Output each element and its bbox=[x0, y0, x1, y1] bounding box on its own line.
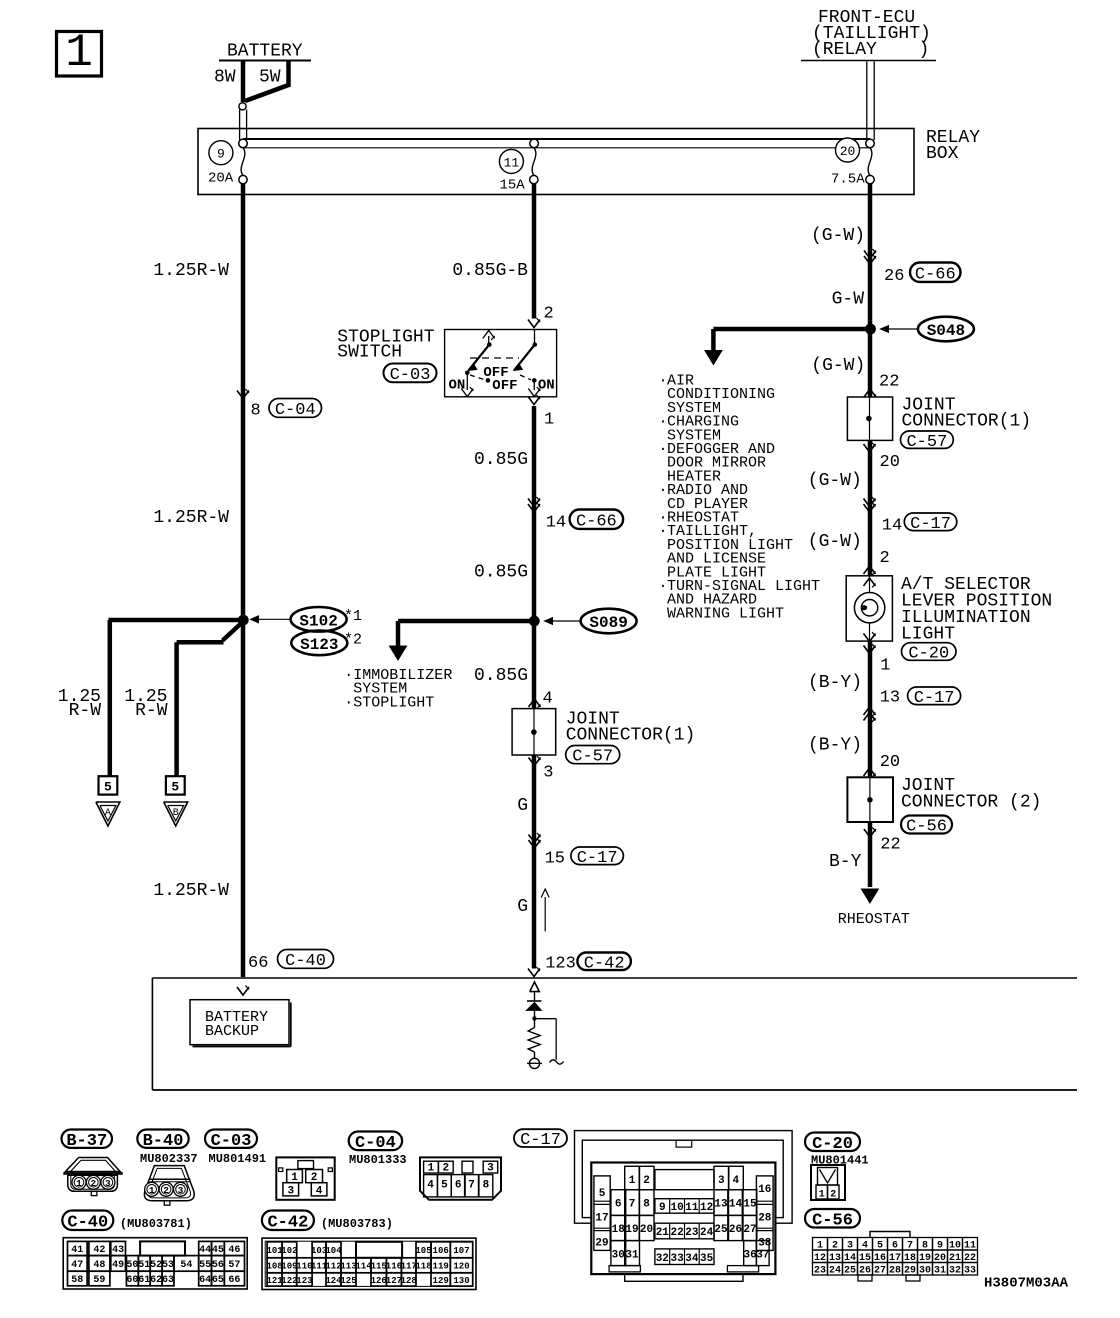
svg-text:118: 118 bbox=[415, 1262, 431, 1272]
svg-text:116: 116 bbox=[386, 1262, 402, 1272]
svg-text:13: 13 bbox=[880, 689, 900, 708]
svg-text:C-42: C-42 bbox=[584, 954, 625, 973]
svg-text:C-04: C-04 bbox=[275, 401, 316, 420]
svg-text:33: 33 bbox=[670, 1253, 684, 1265]
svg-text:108: 108 bbox=[266, 1262, 282, 1272]
svg-text:60: 60 bbox=[126, 1275, 138, 1286]
svg-text:17: 17 bbox=[595, 1213, 608, 1225]
svg-text:C-20: C-20 bbox=[908, 645, 949, 664]
svg-text:3: 3 bbox=[487, 1163, 494, 1175]
svg-text:7: 7 bbox=[629, 1199, 636, 1211]
svg-text:15: 15 bbox=[743, 1199, 757, 1211]
svg-text:5W: 5W bbox=[259, 68, 281, 88]
svg-text:MU801491: MU801491 bbox=[209, 1152, 267, 1166]
svg-text:*1: *1 bbox=[344, 608, 362, 625]
svg-text:127: 127 bbox=[386, 1276, 402, 1286]
svg-text:C-66: C-66 bbox=[915, 265, 956, 284]
svg-text:8: 8 bbox=[251, 402, 261, 421]
svg-text:24: 24 bbox=[829, 1265, 841, 1276]
svg-text:14: 14 bbox=[729, 1199, 743, 1211]
svg-text:1: 1 bbox=[76, 1178, 82, 1189]
svg-text:2: 2 bbox=[830, 1190, 836, 1201]
svg-text:129: 129 bbox=[433, 1276, 449, 1286]
svg-text:6: 6 bbox=[615, 1199, 622, 1211]
svg-text:C-40: C-40 bbox=[67, 1213, 108, 1232]
svg-text:119: 119 bbox=[433, 1262, 449, 1272]
svg-text:C-20: C-20 bbox=[812, 1135, 853, 1154]
svg-text:2: 2 bbox=[163, 1185, 169, 1196]
svg-text:48: 48 bbox=[93, 1260, 105, 1271]
svg-text:36: 36 bbox=[743, 1250, 756, 1262]
svg-text:3: 3 bbox=[543, 764, 553, 783]
svg-text:C-17: C-17 bbox=[910, 515, 951, 534]
svg-text:C-17: C-17 bbox=[914, 689, 955, 708]
svg-text:15: 15 bbox=[545, 850, 565, 869]
svg-text:3: 3 bbox=[178, 1185, 184, 1196]
svg-text:8: 8 bbox=[643, 1199, 650, 1211]
svg-text:28: 28 bbox=[758, 1213, 772, 1225]
svg-text:128: 128 bbox=[401, 1276, 417, 1286]
svg-text:1.25R-W: 1.25R-W bbox=[153, 261, 229, 281]
svg-text:64: 64 bbox=[199, 1275, 211, 1286]
svg-text:C-03: C-03 bbox=[211, 1132, 252, 1151]
svg-text:H3807M03AA: H3807M03AA bbox=[984, 1276, 1069, 1292]
svg-text:41: 41 bbox=[71, 1245, 83, 1256]
svg-text:ON: ON bbox=[538, 378, 555, 394]
svg-text:66: 66 bbox=[228, 1275, 240, 1286]
svg-text:20: 20 bbox=[840, 144, 856, 159]
svg-text:C-66: C-66 bbox=[576, 512, 617, 531]
svg-text:19: 19 bbox=[625, 1224, 638, 1236]
svg-text:1: 1 bbox=[629, 1175, 636, 1187]
svg-text:B-37: B-37 bbox=[66, 1132, 107, 1151]
svg-text:BACKUP: BACKUP bbox=[205, 1023, 259, 1040]
svg-text:R-W: R-W bbox=[69, 701, 102, 721]
svg-text:105: 105 bbox=[415, 1246, 431, 1256]
svg-text:34: 34 bbox=[685, 1253, 699, 1265]
svg-text:·STOPLIGHT: ·STOPLIGHT bbox=[344, 695, 434, 712]
svg-text:120: 120 bbox=[453, 1262, 469, 1272]
svg-text:109: 109 bbox=[281, 1262, 297, 1272]
svg-text:(MU803781): (MU803781) bbox=[120, 1217, 192, 1231]
svg-text:4: 4 bbox=[316, 1185, 323, 1197]
svg-text:6: 6 bbox=[455, 1180, 462, 1192]
svg-text:29: 29 bbox=[595, 1238, 608, 1250]
svg-text:S048: S048 bbox=[927, 322, 965, 340]
svg-text:11: 11 bbox=[504, 155, 520, 170]
svg-text:66: 66 bbox=[248, 954, 268, 973]
svg-text:G: G bbox=[517, 796, 528, 816]
svg-text:2: 2 bbox=[91, 1178, 97, 1189]
svg-text:25: 25 bbox=[844, 1265, 856, 1276]
svg-text:9: 9 bbox=[659, 1202, 666, 1214]
svg-text:1: 1 bbox=[65, 27, 93, 79]
svg-text:C-04: C-04 bbox=[355, 1134, 396, 1153]
svg-text:45: 45 bbox=[212, 1245, 224, 1256]
svg-text:OFF: OFF bbox=[492, 378, 517, 394]
svg-text:26: 26 bbox=[884, 267, 904, 286]
svg-text:125: 125 bbox=[340, 1276, 356, 1286]
svg-text:56: 56 bbox=[212, 1260, 224, 1271]
svg-text:*2: *2 bbox=[344, 632, 362, 649]
svg-text:2: 2 bbox=[880, 549, 890, 568]
svg-text:4: 4 bbox=[427, 1180, 434, 1192]
svg-text:27: 27 bbox=[874, 1265, 886, 1276]
svg-text:1: 1 bbox=[149, 1185, 155, 1196]
svg-text:33: 33 bbox=[964, 1265, 976, 1276]
svg-text:61: 61 bbox=[138, 1275, 150, 1286]
svg-text:C-17: C-17 bbox=[577, 849, 618, 868]
svg-text:B-Y: B-Y bbox=[829, 852, 862, 872]
svg-text:(B-Y): (B-Y) bbox=[808, 736, 862, 756]
svg-text:(G-W): (G-W) bbox=[808, 471, 862, 491]
svg-text:52: 52 bbox=[150, 1260, 162, 1271]
svg-text:C-40: C-40 bbox=[285, 952, 326, 971]
svg-text:9: 9 bbox=[217, 147, 225, 162]
svg-text:24: 24 bbox=[700, 1227, 714, 1239]
svg-text:LIGHT: LIGHT bbox=[901, 625, 955, 645]
svg-text:1.25R-W: 1.25R-W bbox=[153, 508, 229, 528]
svg-text:50: 50 bbox=[126, 1260, 138, 1271]
svg-text:123: 123 bbox=[296, 1276, 312, 1286]
svg-text:(G-W): (G-W) bbox=[811, 226, 865, 246]
svg-text:B-40: B-40 bbox=[143, 1132, 184, 1151]
svg-text:30: 30 bbox=[919, 1265, 931, 1276]
svg-text:(MU803783): (MU803783) bbox=[321, 1217, 393, 1231]
svg-text:5: 5 bbox=[599, 1188, 606, 1200]
svg-text:3: 3 bbox=[287, 1185, 294, 1197]
svg-text:S089: S089 bbox=[589, 614, 627, 632]
svg-text:(RELAY: (RELAY bbox=[812, 40, 877, 60]
svg-text:5: 5 bbox=[104, 780, 112, 795]
svg-text:5: 5 bbox=[171, 780, 179, 795]
svg-text:53: 53 bbox=[162, 1260, 174, 1271]
svg-text:G: G bbox=[517, 897, 528, 917]
svg-text:23: 23 bbox=[814, 1265, 826, 1276]
svg-text:54: 54 bbox=[180, 1260, 192, 1271]
svg-text:(G-W): (G-W) bbox=[811, 356, 865, 376]
svg-text:35: 35 bbox=[700, 1253, 714, 1265]
svg-text:58: 58 bbox=[71, 1275, 83, 1286]
svg-text:1: 1 bbox=[544, 411, 554, 430]
svg-text:123: 123 bbox=[545, 955, 576, 974]
svg-text:A: A bbox=[105, 808, 111, 819]
svg-text:44: 44 bbox=[199, 1245, 211, 1256]
svg-text:7.5A: 7.5A bbox=[831, 172, 865, 188]
svg-text:S102: S102 bbox=[299, 612, 337, 630]
svg-text:106: 106 bbox=[433, 1246, 449, 1256]
svg-text:BOX: BOX bbox=[926, 144, 959, 164]
svg-text:27: 27 bbox=[743, 1224, 756, 1236]
svg-text:(B-Y): (B-Y) bbox=[808, 673, 862, 693]
svg-text:C-42: C-42 bbox=[267, 1213, 308, 1232]
svg-text:2: 2 bbox=[544, 305, 554, 324]
svg-text:21: 21 bbox=[656, 1227, 670, 1239]
svg-text:CONNECTOR (2): CONNECTOR (2) bbox=[901, 793, 1041, 813]
svg-text:C-57: C-57 bbox=[906, 433, 947, 452]
svg-text:7: 7 bbox=[468, 1180, 475, 1192]
svg-text:C-17: C-17 bbox=[520, 1131, 561, 1150]
svg-text:115: 115 bbox=[371, 1262, 387, 1272]
svg-text:S123: S123 bbox=[300, 636, 338, 654]
svg-text:BATTERY: BATTERY bbox=[227, 42, 303, 62]
svg-text:32: 32 bbox=[949, 1265, 961, 1276]
svg-text:C-56: C-56 bbox=[906, 818, 947, 837]
svg-text:C-57: C-57 bbox=[572, 748, 613, 767]
svg-text:20: 20 bbox=[880, 453, 900, 472]
svg-text:8W: 8W bbox=[214, 68, 236, 88]
svg-text:4: 4 bbox=[732, 1175, 739, 1187]
svg-text:WARNING LIGHT: WARNING LIGHT bbox=[667, 605, 784, 622]
svg-text:22: 22 bbox=[670, 1227, 683, 1239]
svg-text:62: 62 bbox=[150, 1275, 162, 1286]
svg-text:3: 3 bbox=[718, 1175, 725, 1187]
svg-text:37: 37 bbox=[756, 1250, 769, 1262]
svg-text:16: 16 bbox=[758, 1184, 771, 1196]
svg-text:CONNECTOR(1): CONNECTOR(1) bbox=[566, 726, 696, 746]
svg-text:SWITCH: SWITCH bbox=[337, 343, 402, 363]
svg-text:20: 20 bbox=[640, 1224, 653, 1236]
svg-text:0.85G: 0.85G bbox=[474, 666, 528, 686]
svg-text:1: 1 bbox=[880, 657, 890, 676]
svg-text:63: 63 bbox=[162, 1275, 174, 1286]
svg-text:14: 14 bbox=[882, 517, 902, 536]
svg-text:2: 2 bbox=[643, 1175, 650, 1187]
svg-text:0.85G: 0.85G bbox=[474, 563, 528, 583]
svg-text:8: 8 bbox=[483, 1180, 490, 1192]
svg-text:112: 112 bbox=[325, 1262, 341, 1272]
svg-text:RHEOSTAT: RHEOSTAT bbox=[838, 911, 910, 928]
svg-text:5: 5 bbox=[441, 1180, 448, 1192]
svg-text:107: 107 bbox=[453, 1246, 469, 1256]
svg-text:MU802337: MU802337 bbox=[140, 1152, 198, 1166]
svg-text:1.25R-W: 1.25R-W bbox=[153, 881, 229, 901]
svg-text:47: 47 bbox=[71, 1260, 83, 1271]
svg-text:13: 13 bbox=[714, 1199, 728, 1211]
svg-text:42: 42 bbox=[93, 1245, 105, 1256]
svg-text:2: 2 bbox=[442, 1163, 449, 1175]
svg-text:18: 18 bbox=[612, 1224, 626, 1236]
svg-text:14: 14 bbox=[546, 514, 566, 533]
svg-text:1: 1 bbox=[428, 1163, 435, 1175]
svg-text:CONNECTOR(1): CONNECTOR(1) bbox=[902, 412, 1032, 432]
svg-text:32: 32 bbox=[656, 1253, 669, 1265]
svg-text:0.85G: 0.85G bbox=[474, 450, 528, 470]
svg-text:126: 126 bbox=[371, 1276, 387, 1286]
svg-text:55: 55 bbox=[199, 1260, 211, 1271]
svg-text:B: B bbox=[173, 808, 179, 819]
svg-text:49: 49 bbox=[112, 1260, 124, 1271]
svg-text:12: 12 bbox=[700, 1202, 713, 1214]
svg-text:30: 30 bbox=[612, 1250, 625, 1262]
svg-text:ON: ON bbox=[449, 378, 466, 394]
svg-text:10: 10 bbox=[670, 1202, 683, 1214]
svg-text:59: 59 bbox=[93, 1275, 105, 1286]
svg-text:11: 11 bbox=[685, 1202, 699, 1214]
svg-text:113: 113 bbox=[340, 1262, 356, 1272]
svg-text:25: 25 bbox=[714, 1224, 728, 1236]
svg-text:43: 43 bbox=[112, 1245, 124, 1256]
svg-text:20: 20 bbox=[880, 753, 900, 772]
svg-text:15A: 15A bbox=[500, 178, 526, 194]
svg-text:R-W: R-W bbox=[135, 701, 168, 721]
svg-text:31: 31 bbox=[625, 1250, 639, 1262]
svg-text:3: 3 bbox=[105, 1178, 111, 1189]
svg-text:26: 26 bbox=[729, 1224, 742, 1236]
svg-text:G-W: G-W bbox=[832, 290, 865, 310]
svg-text:130: 130 bbox=[453, 1276, 469, 1286]
svg-text:C-56: C-56 bbox=[812, 1211, 853, 1230]
svg-text:22: 22 bbox=[879, 373, 899, 392]
svg-text:MU801333: MU801333 bbox=[349, 1153, 407, 1167]
svg-text:65: 65 bbox=[212, 1275, 224, 1286]
svg-text:104: 104 bbox=[325, 1246, 342, 1256]
svg-text:22: 22 bbox=[880, 836, 900, 855]
svg-text:28: 28 bbox=[889, 1265, 901, 1276]
svg-text:122: 122 bbox=[281, 1276, 297, 1286]
svg-text:117: 117 bbox=[401, 1262, 417, 1272]
svg-text:46: 46 bbox=[228, 1245, 240, 1256]
svg-text:31: 31 bbox=[934, 1265, 946, 1276]
svg-text:): ) bbox=[919, 40, 930, 60]
svg-text:C-03: C-03 bbox=[390, 366, 431, 385]
svg-text:0.85G-B: 0.85G-B bbox=[452, 261, 528, 281]
svg-text:57: 57 bbox=[228, 1260, 240, 1271]
svg-text:1: 1 bbox=[819, 1190, 825, 1201]
svg-text:102: 102 bbox=[281, 1246, 297, 1256]
svg-text:51: 51 bbox=[138, 1260, 150, 1271]
svg-text:23: 23 bbox=[685, 1227, 699, 1239]
svg-text:4: 4 bbox=[543, 690, 553, 709]
svg-text:(G-W): (G-W) bbox=[808, 532, 862, 552]
svg-text:20A: 20A bbox=[208, 171, 234, 187]
